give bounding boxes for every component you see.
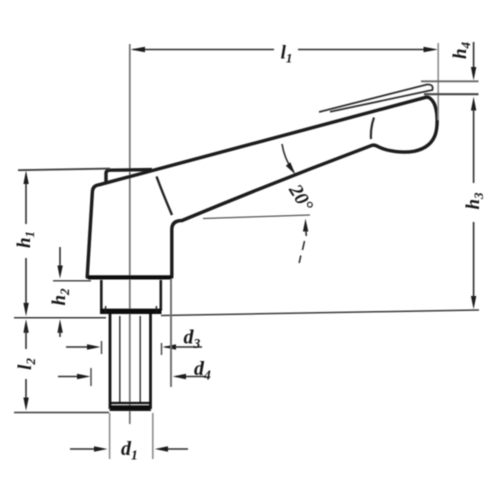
d3 right extension tick xyxy=(161,343,163,355)
dimension l1 line left segment xyxy=(133,49,274,51)
d3 left-pointing arrowhead xyxy=(163,344,177,349)
handle released-position thin outline xyxy=(319,84,433,112)
dimension l2 line lower segment xyxy=(25,379,27,399)
l2 down arrowhead xyxy=(23,398,28,411)
h4 lower extension line (knob top level) xyxy=(424,93,479,95)
collar bottom face heavy line xyxy=(100,309,162,314)
h1 up arrowhead xyxy=(23,171,28,185)
l1 right extension line xyxy=(437,43,439,120)
angle lower up arrowhead at ray xyxy=(303,219,308,232)
d3 right-pointing arrowhead xyxy=(87,344,101,349)
dimension h3 line upper segment xyxy=(473,109,475,183)
d3 left arrow tail xyxy=(66,346,89,348)
centerline of stud / l1 left extension line xyxy=(129,44,131,424)
stud end bottom line xyxy=(110,409,152,411)
dimension h1 line lower segment xyxy=(25,258,27,303)
d4 left arrow tail xyxy=(58,376,79,378)
dimension l1 line right segment xyxy=(298,49,434,51)
h3 up arrowhead xyxy=(471,97,476,111)
h4 down arrowhead xyxy=(471,67,476,81)
stud end face heavy line xyxy=(111,405,151,410)
angle lower arrow tail xyxy=(305,230,308,236)
hub-to-handle blend contour line xyxy=(157,177,173,216)
hub bottom face heavy line xyxy=(88,276,171,280)
d4 right-pointing arrowhead xyxy=(77,374,91,379)
dimension h3 line lower segment xyxy=(473,222,475,297)
angle upper arrowhead at handle lower edge xyxy=(286,162,296,174)
collar bottom extension line to h3 xyxy=(161,310,479,316)
thread core line left xyxy=(119,316,121,403)
collar right chamfer tick xyxy=(155,306,157,313)
collar left edge xyxy=(100,280,103,311)
dimension h1 line upper segment xyxy=(25,183,27,224)
h3 down arrowhead xyxy=(471,296,476,309)
collar bottom extension line left xyxy=(14,317,106,319)
d1 left extension line xyxy=(109,413,111,459)
d4 left extension tick xyxy=(90,368,92,386)
d1 right arrow tail xyxy=(166,448,188,450)
d1 left-pointing arrowhead xyxy=(155,446,168,451)
lever body outline (hub + handle + grip knob) xyxy=(87,97,437,277)
d4 right extension line (hub diameter) xyxy=(170,279,172,387)
thread core line right xyxy=(139,316,141,403)
collar left chamfer tick xyxy=(105,306,107,313)
h2 down arrowhead xyxy=(57,266,62,279)
hub bottom extension line xyxy=(53,280,91,282)
h2 lower arrow tail xyxy=(59,330,61,337)
stud right edge xyxy=(149,314,152,409)
collar right edge xyxy=(160,280,163,311)
h2 up arrowhead xyxy=(57,319,62,333)
d4 left-pointing arrowhead xyxy=(173,374,187,379)
d1 left arrow tail xyxy=(70,448,96,450)
d3 right arrow tail xyxy=(165,346,202,348)
h2 upper arrow tail xyxy=(59,247,61,266)
angle leader dashed continuation xyxy=(299,241,304,263)
angle reference horizontal ray xyxy=(203,215,310,219)
dimension l2 line upper segment xyxy=(25,330,27,349)
stud end extension line left xyxy=(14,412,109,414)
dimension h4 upper line xyxy=(473,42,475,68)
h1 down arrowhead xyxy=(23,303,28,316)
hub top cap xyxy=(106,170,152,184)
d1 right-pointing arrowhead xyxy=(94,446,108,451)
hub top extension line xyxy=(18,169,110,171)
d4 right arrow tail xyxy=(176,376,206,378)
d1 right extension line xyxy=(152,413,154,459)
d3 left extension tick xyxy=(101,341,103,354)
angle upper leader arc xyxy=(282,144,292,169)
grip knob crease line xyxy=(371,118,374,140)
l2 up arrowhead xyxy=(23,319,28,333)
stud left edge xyxy=(109,314,112,409)
stud end chamfer line xyxy=(111,402,151,404)
l1 left arrowhead xyxy=(131,47,146,52)
h4 upper extension line (raised handle level) xyxy=(421,80,479,82)
l1 right arrowhead xyxy=(424,47,439,52)
